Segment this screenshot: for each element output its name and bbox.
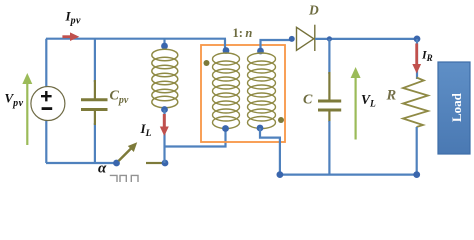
switch node dot right xyxy=(162,160,169,167)
svg-text:Ipv: Ipv xyxy=(65,9,81,27)
V_L arrow (green) xyxy=(351,67,361,140)
inductor L coil xyxy=(152,49,178,108)
rail dot right xyxy=(413,171,420,178)
switch arm alpha xyxy=(119,142,138,161)
secondary bottom dot xyxy=(257,125,264,132)
rail dot left xyxy=(277,171,284,178)
inductor top dot xyxy=(161,43,168,50)
wire after diode to right node xyxy=(315,38,417,40)
wire R bottom xyxy=(416,127,418,175)
voltage source V_pv circle xyxy=(31,87,65,121)
capacitor C_pv xyxy=(81,80,108,125)
wire C branch lower xyxy=(328,121,330,175)
svg-text:IL: IL xyxy=(140,121,152,139)
switch node dot left xyxy=(113,160,120,167)
secondary phasing dot xyxy=(278,117,284,123)
PWM square wave (gray) xyxy=(110,175,138,182)
V_pv source arrow (green) xyxy=(22,73,32,145)
wire R branch top xyxy=(416,39,418,79)
switch contact olive segment xyxy=(146,162,162,164)
secondary top dot xyxy=(257,48,264,55)
wire branch to transformer primary bottom xyxy=(165,131,226,147)
capacitor C xyxy=(318,72,341,122)
wire inductor top stub xyxy=(163,39,165,46)
current arrow I_R (red) xyxy=(412,44,421,74)
svg-text:Vpv: Vpv xyxy=(5,91,24,109)
wire C_pv branch bottom xyxy=(94,123,96,163)
svg-text:R: R xyxy=(386,88,397,104)
wire C_pv branch top xyxy=(94,39,96,82)
wire bottom-left rail xyxy=(46,162,116,164)
wire top rail left xyxy=(46,38,226,40)
secondary top wire to diode xyxy=(261,40,293,50)
svg-text:D: D xyxy=(308,3,319,18)
current arrow I_pv (red) xyxy=(62,32,79,41)
wire C branch upper xyxy=(328,39,330,74)
wire inductor bottom to switch xyxy=(163,110,165,164)
bottom right rail xyxy=(280,174,417,176)
inductor bottom dot xyxy=(161,106,168,113)
svg-text:1: n: 1: n xyxy=(233,26,253,40)
wire top rail corner into primary xyxy=(224,39,226,50)
diode anode dot xyxy=(289,36,295,42)
primary bottom dot xyxy=(222,125,229,132)
transformer secondary coil xyxy=(248,53,276,129)
svg-text:α: α xyxy=(98,160,107,176)
svg-text:Cpv: Cpv xyxy=(110,89,129,107)
right node dot xyxy=(414,36,421,43)
svg-text:VL: VL xyxy=(361,92,376,110)
transformer primary coil xyxy=(213,53,240,129)
svg-text:Load: Load xyxy=(449,92,464,122)
svg-text:C: C xyxy=(303,93,313,108)
diode D xyxy=(297,25,315,51)
primary phasing dot xyxy=(204,60,210,66)
load box xyxy=(438,62,470,154)
transformer box (orange) xyxy=(201,45,285,142)
junction dot C branch xyxy=(327,36,332,41)
current arrow I_L (red) xyxy=(160,114,169,136)
primary top dot xyxy=(223,47,230,54)
secondary bottom wire to bottom rail xyxy=(260,128,280,175)
wire left vertical xyxy=(45,39,47,163)
svg-text:IR: IR xyxy=(421,48,433,63)
resistor R zigzag xyxy=(403,78,428,128)
